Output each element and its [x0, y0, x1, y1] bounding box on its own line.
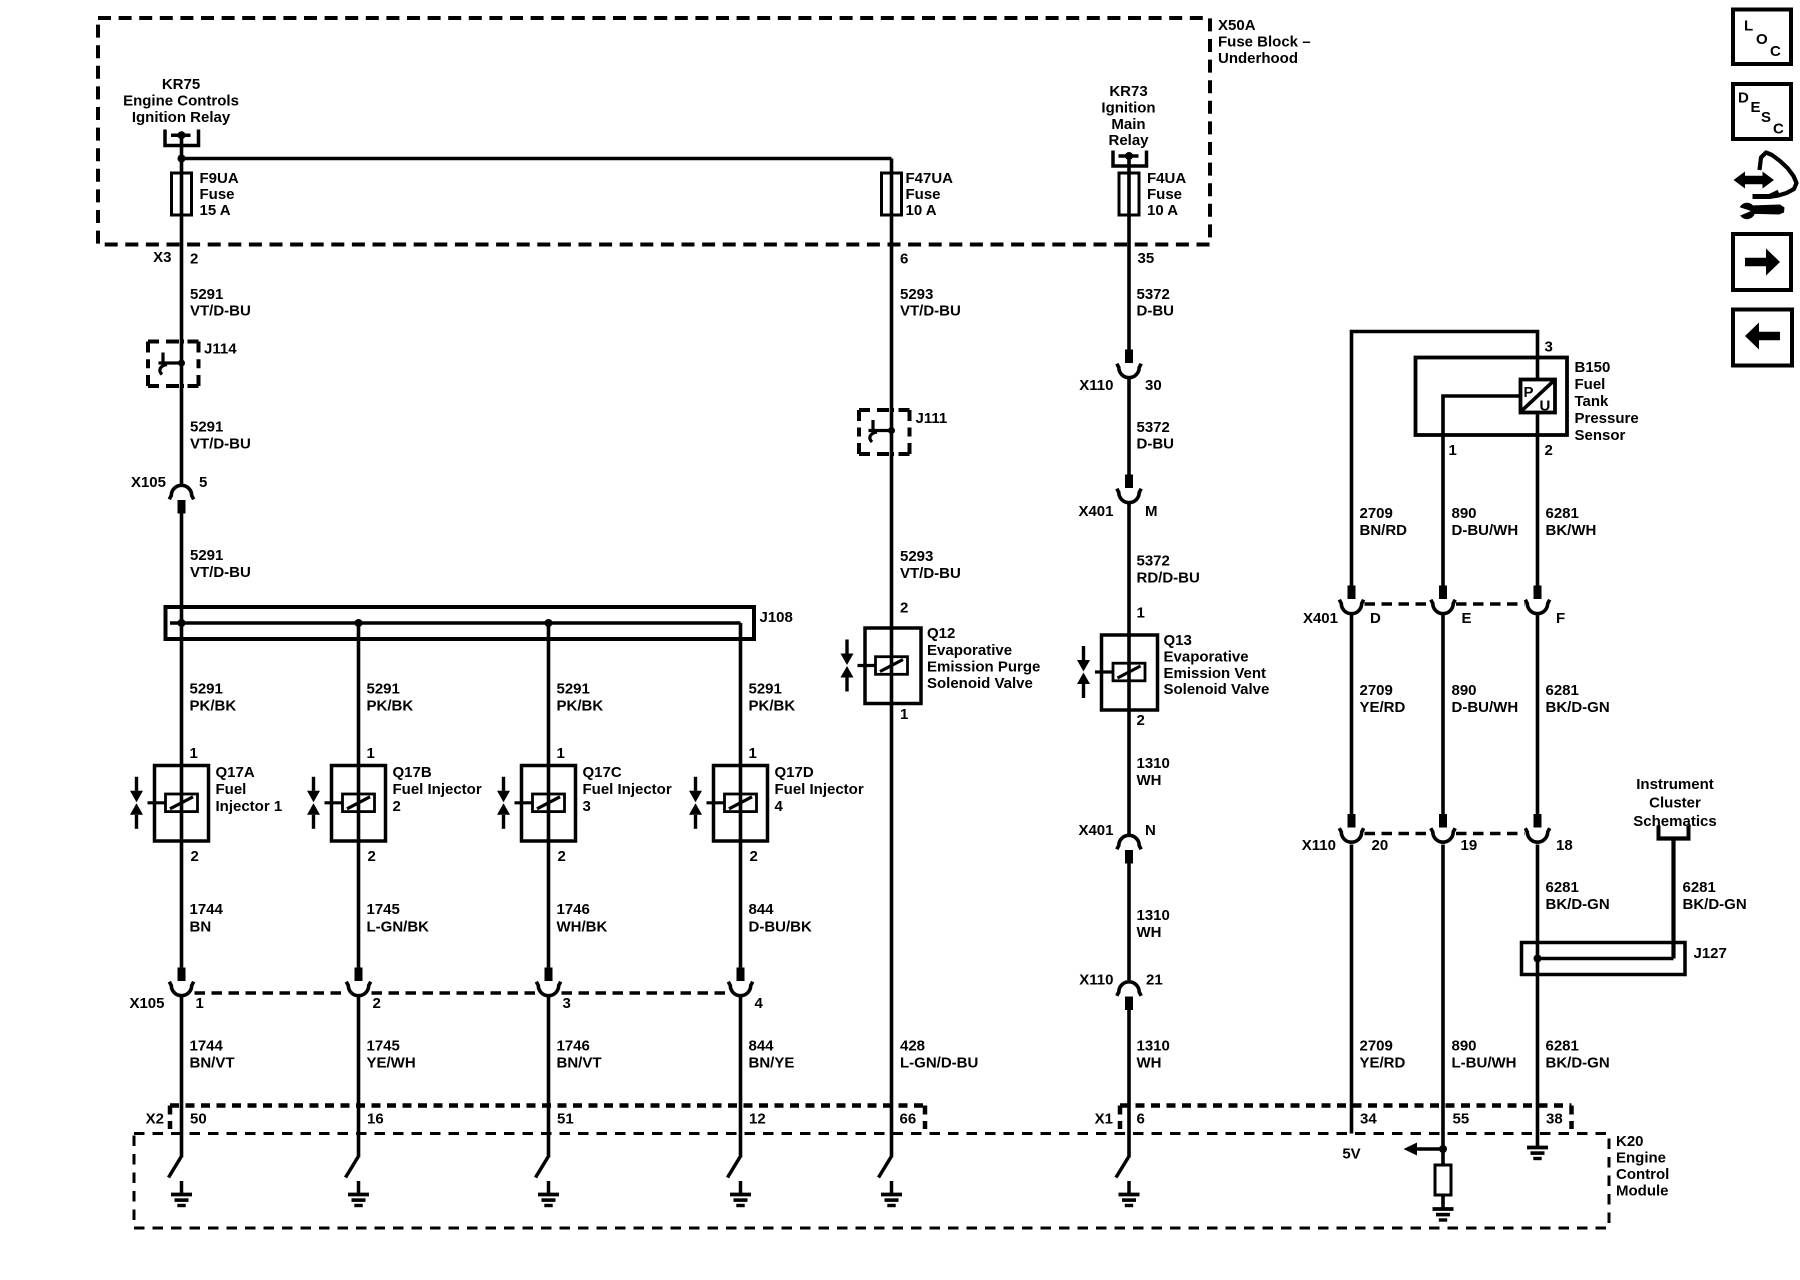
connector X1 dotted line	[1120, 1106, 1572, 1130]
label X105 5	[131, 474, 207, 491]
ground ECM pin 16	[348, 1195, 369, 1206]
svg-text:2: 2	[368, 848, 376, 865]
svg-text:Emission Vent: Emission Vent	[1164, 665, 1267, 682]
svg-text:6281: 6281	[1546, 1038, 1579, 1055]
ECM driver switch pin 51	[536, 1106, 549, 1195]
svg-text:6: 6	[900, 251, 908, 268]
svg-text:1744: 1744	[190, 1038, 224, 1055]
svg-text:1: 1	[749, 745, 757, 762]
label wire 1746 BN/VT	[557, 1038, 602, 1072]
wire KR75 to fuse F9UA	[180, 135, 184, 173]
label wire 5372 D-BU	[1137, 286, 1175, 320]
svg-text:2: 2	[393, 798, 401, 815]
svg-text:10 A: 10 A	[906, 202, 937, 219]
svg-text:12: 12	[749, 1111, 766, 1128]
svg-text:1: 1	[900, 706, 908, 723]
label wire 1744 BN	[190, 901, 224, 936]
ground ECM pin 12	[730, 1195, 751, 1206]
wire through injector Q17D	[739, 766, 743, 842]
wire 5291 X105-5 to splice pack J108	[180, 514, 184, 624]
fuel injector Q17D	[689, 766, 768, 842]
connector X105 pin 1	[169, 968, 193, 996]
connector X110 pin 20	[1339, 814, 1363, 842]
svg-text:1746: 1746	[557, 901, 590, 918]
svg-text:10 A: 10 A	[1147, 202, 1178, 219]
fuse F4UA 10 A	[1119, 173, 1139, 244]
svg-text:X1: X1	[1095, 1111, 1113, 1128]
svg-text:PK/BK: PK/BK	[749, 698, 796, 715]
wire 890 X401-E to X110-19	[1441, 615, 1445, 815]
svg-text:F4UA: F4UA	[1147, 170, 1186, 187]
wire 5372 X401-M to Q13	[1127, 504, 1131, 635]
icon back arrow button	[1733, 310, 1792, 366]
wire through Q13	[1127, 635, 1131, 710]
relay KR75 contact symbol	[165, 130, 199, 146]
svg-text:3: 3	[1545, 339, 1553, 356]
svg-text:BK/D-GN: BK/D-GN	[1546, 1055, 1610, 1072]
svg-text:38: 38	[1546, 1111, 1563, 1128]
svg-text:J111: J111	[916, 410, 948, 427]
svg-text:PK/BK: PK/BK	[367, 698, 414, 715]
connector X401 pin M	[1117, 475, 1141, 503]
svg-text:2709: 2709	[1360, 505, 1393, 522]
svg-text:X105: X105	[131, 474, 166, 491]
wire 844 BN/YE X105 to ECM pin 12	[739, 997, 743, 1106]
label wire 1310 WH	[1137, 755, 1170, 789]
svg-text:X110: X110	[1079, 377, 1113, 394]
label wire 5372 D-BU	[1137, 419, 1175, 453]
svg-text:WH: WH	[1137, 924, 1162, 941]
fuse F47UA 10 A	[882, 173, 902, 244]
connector X105 dashed gang line	[195, 991, 728, 995]
wire 1745 YE/WH X105 to ECM pin 16	[357, 997, 361, 1106]
label wire 5291 PK/BK	[749, 681, 796, 715]
svg-text:Evaporative: Evaporative	[1164, 649, 1249, 666]
label X401 D E F	[1303, 610, 1565, 627]
svg-text:1746: 1746	[557, 1038, 590, 1055]
svg-text:2: 2	[191, 848, 199, 865]
wire 5291 J108 to Q17B	[357, 623, 361, 766]
svg-text:5372: 5372	[1137, 553, 1170, 570]
connector X2 dotted line	[170, 1106, 925, 1130]
svg-text:Q17C: Q17C	[583, 764, 622, 781]
label wire 5291 VT/D-BU	[190, 547, 251, 581]
svg-text:1: 1	[557, 745, 565, 762]
svg-text:VT/D-BU: VT/D-BU	[190, 436, 251, 453]
svg-text:Instrument: Instrument	[1636, 776, 1714, 793]
relay KR73 contact symbol	[1113, 151, 1147, 167]
connector X105 pin 5	[169, 485, 193, 513]
label X110 20 19 18	[1302, 837, 1573, 854]
splice J114 dashed box	[148, 342, 199, 387]
svg-text:B150: B150	[1575, 359, 1611, 376]
svg-text:1745: 1745	[367, 1038, 400, 1055]
svg-text:Tank: Tank	[1575, 393, 1610, 410]
wire horizontal feed to F47UA	[182, 157, 892, 161]
svg-text:5291: 5291	[190, 547, 223, 564]
wire 1744 BN injector to X105	[180, 841, 184, 968]
wire 1745 L-GN/BK injector to X105	[357, 841, 361, 968]
svg-text:F47UA: F47UA	[906, 170, 954, 187]
ground ECM pin 38	[1527, 1148, 1548, 1159]
svg-text:O: O	[1756, 31, 1768, 48]
svg-text:50: 50	[190, 1111, 207, 1128]
svg-text:2: 2	[190, 251, 198, 268]
label Q17A	[216, 764, 283, 815]
svg-text:D: D	[1370, 610, 1381, 627]
wire 5291 J108 to Q17D	[739, 623, 743, 766]
svg-text:5291: 5291	[557, 681, 590, 698]
svg-text:890: 890	[1452, 1038, 1477, 1055]
svg-text:428: 428	[900, 1038, 925, 1055]
label Q13 Evaporative Emission Vent Solenoid Valve	[1164, 632, 1270, 698]
svg-text:BK/D-GN: BK/D-GN	[1546, 699, 1610, 716]
solenoid valve Q12	[841, 628, 922, 704]
svg-text:Engine Controls: Engine Controls	[123, 93, 239, 110]
svg-text:5291: 5291	[749, 681, 782, 698]
splice pack J108 box	[166, 607, 755, 639]
sensor B150 P/U element	[1521, 380, 1556, 415]
label Q12 Evaporative Emission Purge Solenoid Valve	[927, 625, 1040, 692]
connector X401 pin F	[1525, 586, 1549, 614]
connector X105 pin 4	[728, 968, 752, 996]
wire 5291 J108 to Q17A	[180, 623, 184, 766]
wire 428 Q12 to ECM pin 66	[890, 704, 894, 1106]
ECM driver switch pin 66	[879, 1106, 892, 1195]
wire through injector Q17B	[357, 766, 361, 842]
svg-text:L-BU/WH: L-BU/WH	[1452, 1055, 1517, 1072]
junction node J108 col2	[355, 619, 363, 627]
svg-text:2709: 2709	[1360, 682, 1393, 699]
svg-text:2: 2	[373, 995, 381, 1012]
svg-text:6281: 6281	[1546, 682, 1579, 699]
svg-text:X50A: X50A	[1218, 17, 1256, 34]
ECM K20 dashed enclosure	[134, 1134, 1609, 1229]
svg-text:3: 3	[563, 995, 571, 1012]
svg-text:Fuse: Fuse	[906, 186, 941, 203]
svg-text:E: E	[1751, 99, 1761, 116]
svg-text:Module: Module	[1616, 1183, 1669, 1200]
connector X3 pin 2 label	[153, 249, 198, 268]
svg-text:19: 19	[1461, 837, 1478, 854]
icon LOC button	[1733, 10, 1791, 65]
svg-text:Fuse Block –: Fuse Block –	[1218, 34, 1311, 51]
svg-text:5291: 5291	[190, 681, 223, 698]
label wire 5291 PK/BK	[190, 681, 237, 715]
svg-text:VT/D-BU: VT/D-BU	[190, 564, 251, 581]
fuse block X50A dashed enclosure	[98, 18, 1210, 245]
svg-text:Fuel: Fuel	[216, 781, 247, 798]
relay KR75 label	[123, 76, 239, 126]
label wire 5293 VT/D-BU	[900, 548, 961, 582]
label F4UA Fuse 10 A	[1147, 170, 1186, 219]
solenoid valve Q13	[1077, 635, 1158, 710]
svg-text:Fuse: Fuse	[1147, 186, 1182, 203]
icon forward arrow button	[1733, 234, 1791, 290]
wire 2709 sensor pin3 feed	[1352, 332, 1538, 587]
node Instrument Cluster Schematics	[1633, 776, 1716, 839]
fuel injector Q17B	[307, 766, 386, 842]
label wire 2709 YE/RD	[1360, 682, 1406, 716]
label Q17B	[393, 764, 482, 815]
wire 6281 X401-F to X110-18	[1536, 615, 1540, 815]
svg-text:4: 4	[755, 995, 764, 1012]
bus wire inside J108	[170, 621, 741, 625]
label wire 844 BN/YE	[749, 1038, 795, 1072]
svg-text:Ignition Relay: Ignition Relay	[132, 109, 231, 126]
junction node J108 col3	[545, 619, 553, 627]
svg-text:Pressure: Pressure	[1575, 410, 1639, 427]
connector X110 pin 18	[1525, 814, 1549, 842]
svg-text:18: 18	[1556, 837, 1573, 854]
ECM signal input arrow pin 55	[1404, 1143, 1448, 1156]
wire 5291 X3-2 to J114	[180, 244, 184, 342]
svg-text:BK/D-GN: BK/D-GN	[1546, 896, 1610, 913]
label X401 M	[1078, 503, 1157, 520]
wire through J114	[180, 342, 184, 387]
svg-text:S: S	[1761, 109, 1771, 126]
wire 2709 X401-D to X110-20	[1350, 615, 1354, 815]
svg-text:PK/BK: PK/BK	[557, 698, 604, 715]
label wire 1744 BN/VT	[190, 1038, 235, 1072]
wire 5291 J108 to Q17C	[547, 623, 551, 766]
wire sensor pin 2	[1536, 413, 1540, 587]
wire through Q12	[890, 628, 894, 704]
ECM driver switch pin 12	[728, 1106, 741, 1195]
ECM 5V supply pin 34	[1342, 1146, 1360, 1163]
label wire 890 D-BU/WH	[1452, 682, 1519, 716]
wire 6281 X110-18 to ECM pin 38	[1536, 845, 1540, 1148]
wire through J111	[890, 410, 894, 454]
label B150 Fuel Tank Pressure Sensor	[1575, 359, 1639, 444]
svg-text:L-GN/D-BU: L-GN/D-BU	[900, 1055, 978, 1072]
wire through injector Q17A	[180, 766, 184, 842]
wire through injector Q17C	[547, 766, 551, 842]
svg-text:5372: 5372	[1137, 419, 1170, 436]
svg-text:KR73: KR73	[1109, 83, 1147, 100]
svg-text:WH/BK: WH/BK	[557, 919, 608, 936]
svg-text:6: 6	[1137, 1111, 1145, 1128]
svg-text:VT/D-BU: VT/D-BU	[190, 303, 251, 320]
svg-text:16: 16	[367, 1111, 384, 1128]
svg-text:P: P	[1524, 384, 1534, 401]
label wire 890 L-BU/WH	[1452, 1038, 1517, 1072]
label wire 428 L-GN/D-BU	[900, 1038, 978, 1072]
svg-text:BK/D-GN: BK/D-GN	[1683, 896, 1747, 913]
svg-text:2: 2	[558, 848, 566, 865]
label wire 6281 BK/D-GN	[1546, 682, 1610, 716]
svg-text:WH: WH	[1137, 1055, 1162, 1072]
svg-text:1: 1	[1449, 442, 1457, 459]
svg-text:844: 844	[749, 1038, 775, 1055]
relay KR73 label	[1101, 83, 1155, 149]
svg-text:1: 1	[190, 745, 198, 762]
svg-text:X3: X3	[153, 249, 171, 266]
svg-text:VT/D-BU: VT/D-BU	[900, 303, 961, 320]
svg-text:BN/VT: BN/VT	[190, 1055, 235, 1072]
svg-text:X401: X401	[1078, 503, 1113, 520]
svg-text:Fuel Injector: Fuel Injector	[775, 781, 864, 798]
svg-text:Control: Control	[1616, 1166, 1669, 1183]
svg-text:66: 66	[900, 1111, 917, 1128]
svg-text:Solenoid Valve: Solenoid Valve	[927, 675, 1033, 692]
svg-text:Sensor: Sensor	[1575, 427, 1626, 444]
svg-text:Fuel: Fuel	[1575, 376, 1606, 393]
ground ECM pin 6	[1119, 1195, 1140, 1206]
svg-text:2709: 2709	[1360, 1038, 1393, 1055]
connector X401 pin N	[1117, 835, 1141, 863]
wire 5291 J114 to X105-5	[180, 386, 184, 485]
svg-text:1745: 1745	[367, 901, 400, 918]
svg-text:X401: X401	[1078, 822, 1113, 839]
label wire 2709 YE/RD	[1360, 1038, 1406, 1072]
label Q17D	[775, 764, 864, 815]
label X110 21	[1079, 972, 1162, 989]
wire 6281 instrument cluster to J127	[1671, 839, 1675, 959]
svg-text:U: U	[1540, 398, 1551, 415]
svg-text:2: 2	[750, 848, 758, 865]
label wire 5293 VT/D-BU	[900, 286, 961, 320]
ECM driver switch pin 50	[169, 1106, 182, 1195]
ground ECM pin 55	[1433, 1209, 1454, 1220]
svg-text:5V: 5V	[1342, 1146, 1360, 1163]
svg-text:30: 30	[1145, 377, 1162, 394]
connector X110 pin 21	[1117, 982, 1141, 1010]
svg-text:Solenoid Valve: Solenoid Valve	[1164, 681, 1270, 698]
label X401 N	[1078, 822, 1155, 839]
wire 890 X110-19 to ECM pin 55	[1441, 845, 1445, 1166]
wire inside J127	[1538, 957, 1674, 961]
svg-text:X110: X110	[1302, 837, 1336, 854]
wire 5293 J111 to Q12	[890, 454, 894, 628]
svg-text:D-BU/BK: D-BU/BK	[749, 919, 812, 936]
wire 1310 X401-N to X110-21	[1127, 864, 1131, 981]
wire 5372 X110-30 to X401-M	[1127, 379, 1131, 475]
svg-text:C: C	[1770, 43, 1781, 60]
junction node J127	[1534, 955, 1542, 963]
svg-text:21: 21	[1146, 972, 1163, 989]
fuel injector Q17C	[497, 766, 576, 842]
label Q17C	[583, 764, 672, 815]
label wire 1746 WH/BK	[557, 901, 608, 936]
svg-text:1310: 1310	[1137, 907, 1170, 924]
svg-text:2: 2	[1137, 712, 1145, 729]
svg-text:N: N	[1145, 822, 1156, 839]
svg-text:Q13: Q13	[1164, 632, 1192, 649]
splice J127 box	[1522, 943, 1686, 975]
wire sensor pin 1	[1443, 396, 1521, 586]
wire 1310 Q13 to X401-N	[1127, 710, 1131, 835]
svg-text:WH: WH	[1137, 772, 1162, 789]
label wire 5291 VT/D-BU	[190, 286, 251, 320]
label F9UA Fuse 15 A	[200, 170, 239, 219]
svg-text:BN/YE: BN/YE	[749, 1055, 795, 1072]
svg-text:X2: X2	[146, 1111, 164, 1128]
svg-text:Schematics: Schematics	[1633, 813, 1716, 830]
ground ECM pin 51	[538, 1195, 559, 1206]
svg-text:Emission Purge: Emission Purge	[927, 659, 1040, 676]
junction node KR75 output	[178, 155, 186, 163]
label wire 5291 VT/D-BU	[190, 419, 251, 453]
wire 1310 X110-21 to ECM pin 6	[1127, 1010, 1131, 1106]
svg-text:J108: J108	[760, 609, 793, 626]
svg-text:4: 4	[775, 798, 784, 815]
wire 5293 pin6 to J111	[890, 244, 894, 410]
icon diagnostic navigation (arrows and wrench)	[1734, 153, 1797, 220]
svg-text:BN: BN	[190, 919, 212, 936]
wire 1746 BN/VT X105 to ECM pin 51	[547, 997, 551, 1106]
label wire 6281 BK/D-GN lower	[1546, 1038, 1610, 1072]
junction node J108 col1	[178, 619, 186, 627]
label wire 5291 PK/BK	[367, 681, 414, 715]
svg-text:F: F	[1556, 610, 1565, 627]
label X110 30	[1079, 377, 1161, 394]
svg-text:890: 890	[1452, 682, 1477, 699]
svg-text:5293: 5293	[900, 286, 933, 303]
splice symbol J111	[869, 420, 896, 442]
wire drop to fuse F47UA	[890, 159, 894, 174]
ECM driver switch pin 6	[1116, 1106, 1129, 1195]
svg-text:E: E	[1462, 610, 1472, 627]
connector X105 pin 2	[346, 968, 370, 996]
X110 row dashed gang line	[1365, 832, 1525, 836]
label wire 1745 L-GN/BK	[367, 901, 430, 936]
svg-text:D: D	[1738, 90, 1749, 107]
svg-text:2: 2	[1545, 442, 1553, 459]
svg-text:YE/RD: YE/RD	[1360, 699, 1406, 716]
svg-text:35: 35	[1138, 250, 1155, 267]
svg-text:X401: X401	[1303, 610, 1338, 627]
wire 1744 BN/VT X105 to ECM pin 50	[180, 997, 184, 1106]
fuse F9UA 15 A	[172, 173, 192, 244]
label wire 1310 WH	[1137, 1038, 1170, 1072]
svg-text:RD/D-BU: RD/D-BU	[1137, 570, 1200, 587]
wire KR73 to fuse F4UA	[1127, 156, 1131, 173]
connector X401 pin D	[1339, 586, 1363, 614]
svg-text:D-BU/WH: D-BU/WH	[1452, 522, 1519, 539]
svg-text:VT/D-BU: VT/D-BU	[900, 565, 961, 582]
wire 5372 pin35 to X110-30	[1127, 244, 1131, 350]
icon DESC button	[1733, 84, 1791, 139]
connector X110 pin 30	[1117, 350, 1141, 378]
svg-text:Q17B: Q17B	[393, 764, 432, 781]
svg-text:5293: 5293	[900, 548, 933, 565]
svg-text:1744: 1744	[190, 901, 224, 918]
label wire 2709 BN/RD	[1360, 505, 1408, 539]
svg-text:3: 3	[583, 798, 591, 815]
svg-text:Relay: Relay	[1108, 132, 1149, 149]
svg-text:1310: 1310	[1137, 1038, 1170, 1055]
svg-text:5291: 5291	[190, 419, 223, 436]
svg-text:F9UA: F9UA	[200, 170, 239, 187]
svg-text:5: 5	[199, 474, 207, 491]
svg-text:D-BU/WH: D-BU/WH	[1452, 699, 1519, 716]
svg-text:Engine: Engine	[1616, 1150, 1666, 1167]
svg-text:6281: 6281	[1546, 505, 1579, 522]
svg-text:X110: X110	[1079, 972, 1113, 989]
svg-text:D-BU: D-BU	[1137, 436, 1175, 453]
svg-text:J127: J127	[1694, 945, 1727, 962]
svg-text:51: 51	[557, 1111, 574, 1128]
ground ECM pin 66	[881, 1195, 902, 1206]
svg-text:KR75: KR75	[162, 76, 200, 93]
label F47UA Fuse 10 A	[906, 170, 954, 219]
svg-text:M: M	[1145, 503, 1158, 520]
svg-text:890: 890	[1452, 505, 1477, 522]
svg-text:5372: 5372	[1137, 286, 1170, 303]
svg-text:55: 55	[1453, 1111, 1470, 1128]
svg-text:YE/WH: YE/WH	[367, 1055, 416, 1072]
